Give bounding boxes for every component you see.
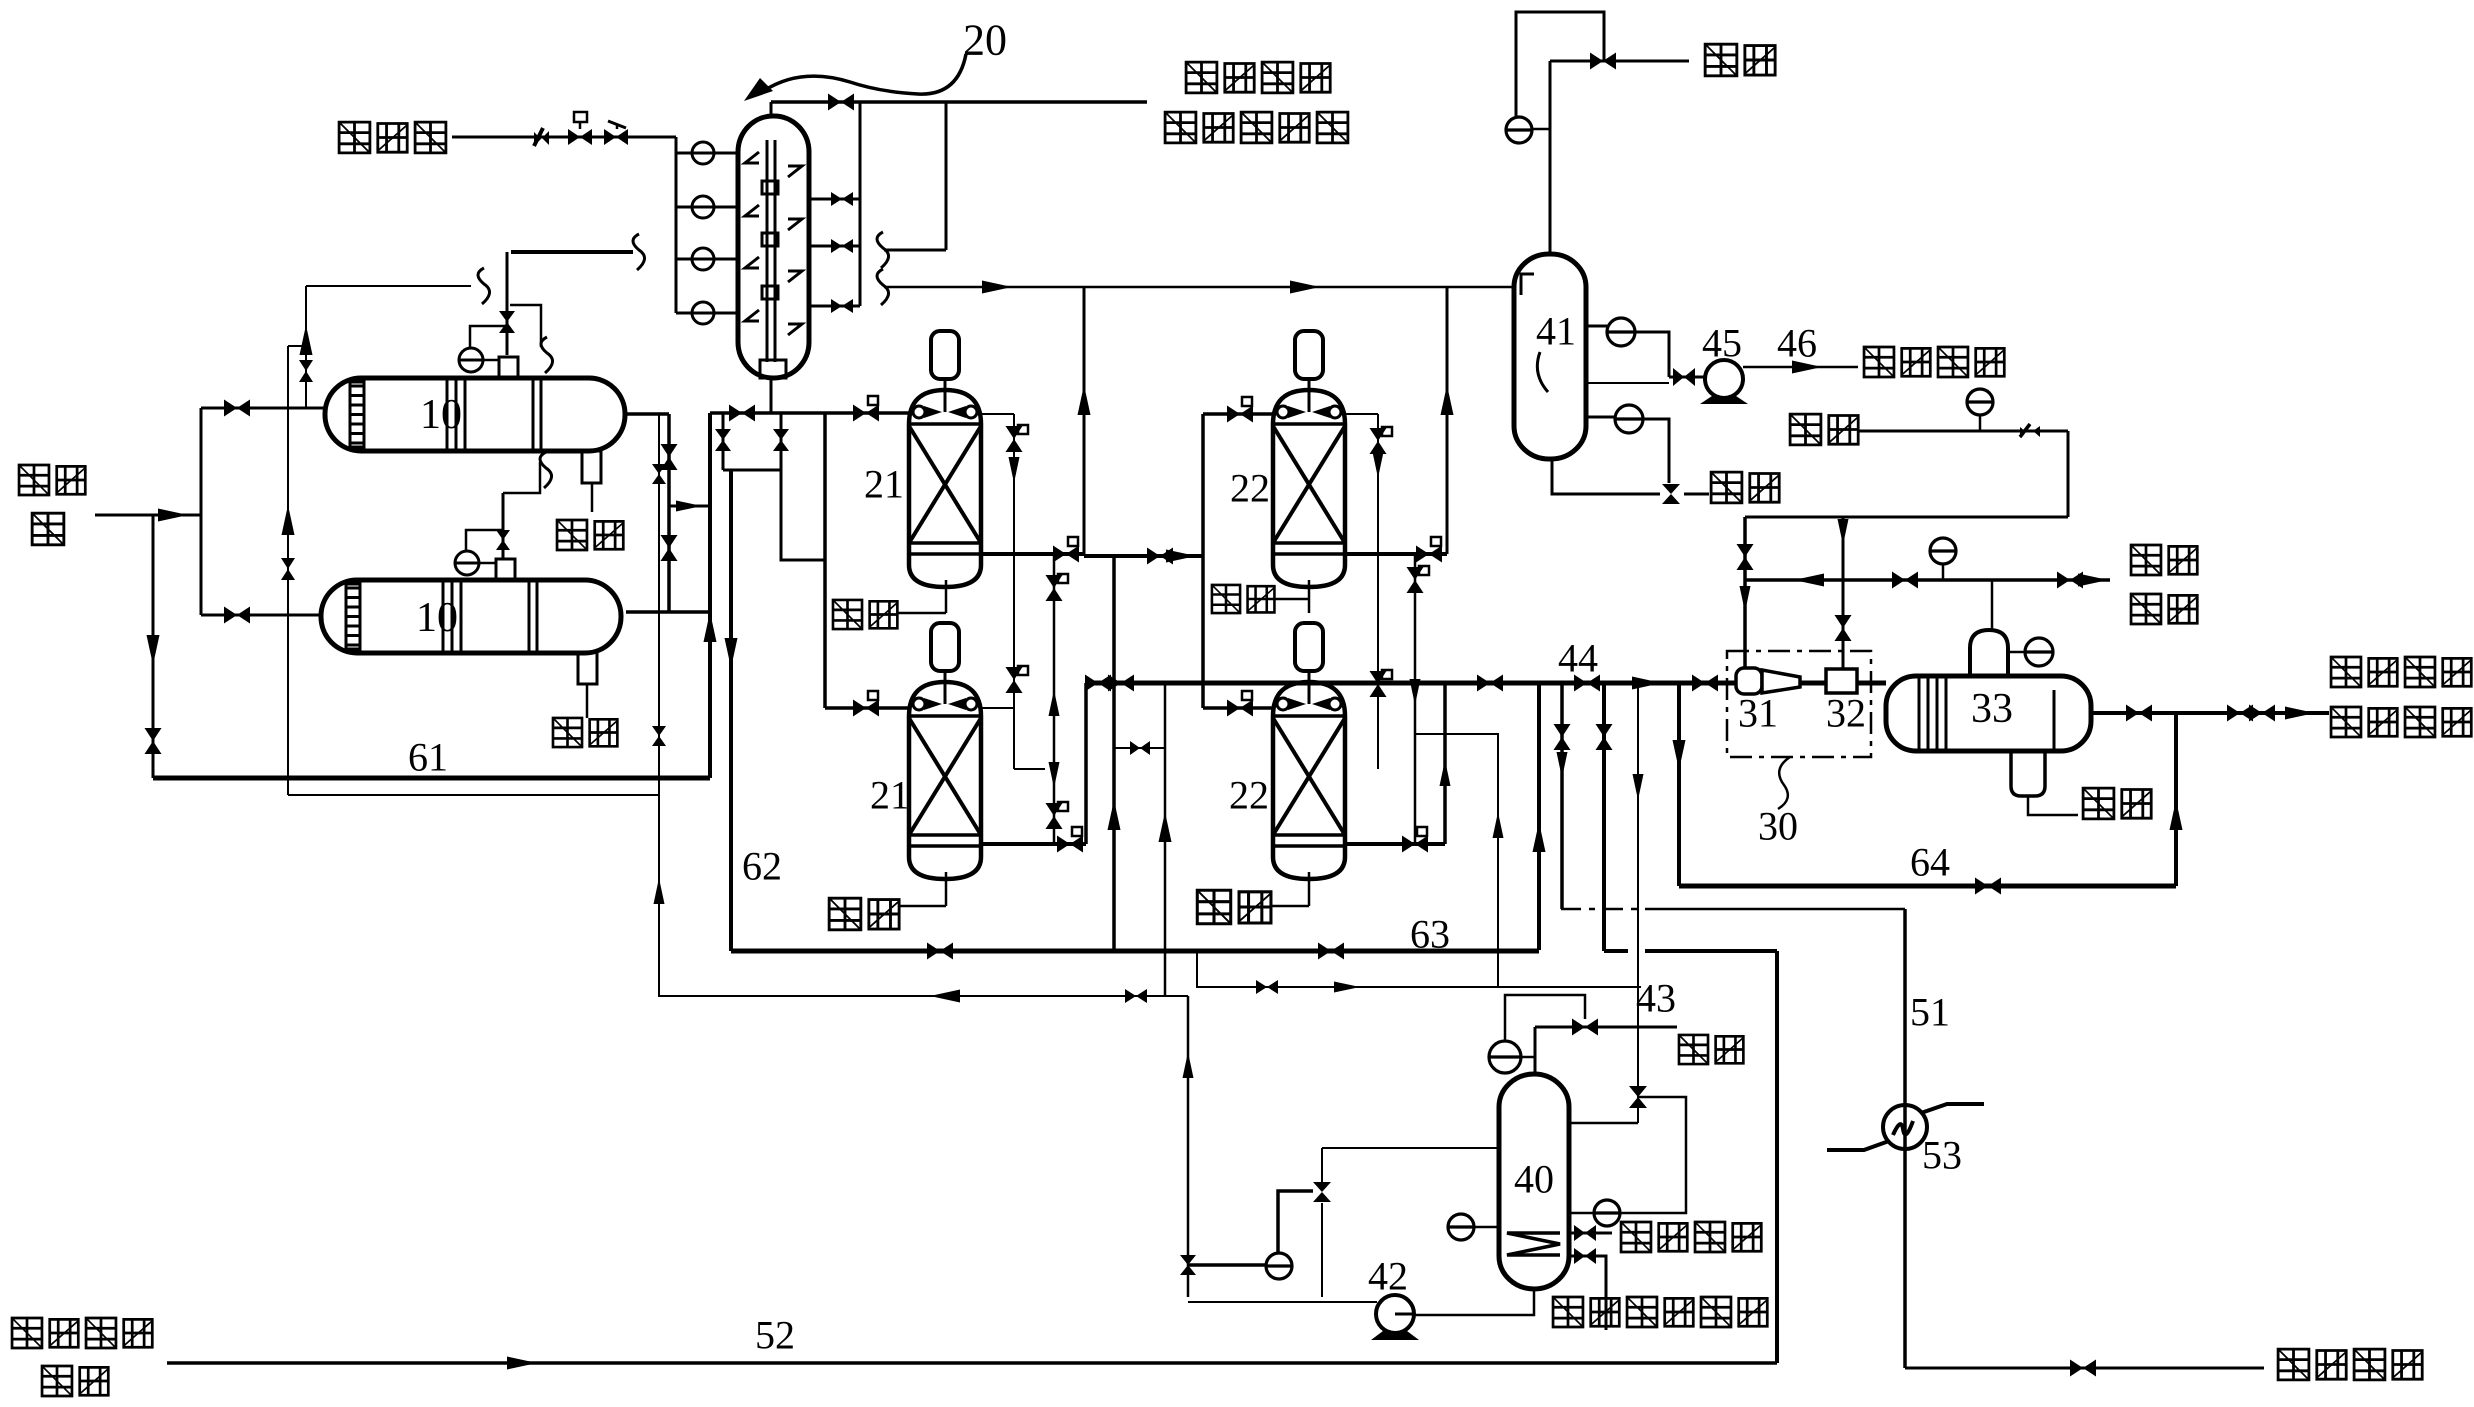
41 upper outlet bbox=[1586, 325, 1607, 328]
riser 22 lower bbox=[1443, 683, 1447, 844]
svg-text:31: 31 bbox=[1738, 691, 1778, 736]
heavy oil label upper bbox=[557, 520, 587, 550]
drop x1604 bbox=[1602, 683, 1606, 951]
nozzle circle at 259 bbox=[676, 258, 692, 261]
orifice 32 bbox=[1826, 669, 1857, 693]
control valve on cracked gas line bbox=[568, 129, 580, 145]
column 20 shell bbox=[738, 116, 809, 378]
column 20 dip tube bbox=[766, 140, 769, 362]
reactor 21 lower drain bbox=[945, 872, 948, 906]
connector y506 bbox=[669, 505, 710, 508]
riser 21 upper bbox=[1083, 287, 1086, 554]
column right branch 306 bbox=[809, 305, 860, 308]
line 64 bbox=[1679, 884, 2176, 889]
globe valve standpipe bbox=[499, 311, 515, 322]
cracked gas line bbox=[452, 136, 676, 139]
vessel 10 hatch band bbox=[346, 584, 360, 649]
reactor 21 upper bbox=[909, 390, 981, 587]
long line to vessel 41 bbox=[884, 286, 1514, 289]
PI circle 41 top bbox=[1506, 117, 1532, 143]
line 52 bbox=[167, 1361, 1777, 1365]
vessel 33 shell bbox=[1886, 676, 2091, 751]
upper 10 standpipe bbox=[506, 252, 509, 355]
svg-text:43: 43 bbox=[1636, 976, 1676, 1021]
thin line y987 bbox=[1197, 951, 1641, 987]
nozzle circle at 207 bbox=[676, 206, 692, 209]
reactor 21 upper inlet bbox=[825, 411, 909, 415]
label 20 leader bbox=[765, 54, 966, 94]
flare line bbox=[1550, 60, 1689, 63]
reactor 22 upper outlet bbox=[1345, 552, 1447, 556]
styrene water label bbox=[12, 1318, 42, 1348]
vessel 10 baffle lines bbox=[442, 580, 445, 653]
drop x1745 to ejector bbox=[1743, 517, 1747, 668]
svg-text:20: 20 bbox=[963, 16, 1007, 65]
vessel 10 lower top nozzle bbox=[496, 559, 515, 580]
nozzle circle at 313 bbox=[676, 312, 692, 315]
flare label 2 bbox=[1679, 1035, 1708, 1064]
svg-text:61: 61 bbox=[408, 735, 448, 780]
line y909 dashed+solid bbox=[1561, 908, 1645, 911]
heavy oil label 21u bbox=[833, 600, 862, 629]
svg-text:63: 63 bbox=[1410, 912, 1450, 957]
quench tower label 1 bbox=[1864, 347, 1894, 377]
thin line y795 bbox=[288, 794, 658, 796]
aux vertical x1054 bbox=[1053, 554, 1056, 844]
column 20 right header bbox=[859, 102, 862, 306]
bypass line B bbox=[305, 286, 307, 409]
PI circle toluene bbox=[1967, 389, 1993, 415]
line 51 bbox=[1903, 909, 1907, 1368]
vessel 33 tubes bbox=[1918, 677, 1921, 750]
riser 21 lower bbox=[1084, 683, 1088, 844]
reactor 22 upper bbox=[1273, 390, 1345, 587]
check valve toluene bbox=[2020, 424, 2030, 437]
svg-text:33: 33 bbox=[1971, 686, 2013, 732]
thin line y996 bbox=[658, 995, 1188, 997]
globe valve lower standpipe bbox=[496, 530, 510, 540]
thin x1378 bbox=[1377, 414, 1379, 769]
PI circle 42 bbox=[1266, 1253, 1292, 1279]
PI circle 40 bbox=[1489, 1041, 1521, 1073]
lower 10 outlet bbox=[626, 610, 710, 614]
process water label 工艺水 bbox=[19, 465, 49, 495]
column 20 bottom notch bbox=[760, 360, 786, 378]
column 20 internals level 1 bbox=[745, 152, 759, 163]
svg-text:22: 22 bbox=[1229, 773, 1269, 818]
flare line 40 bbox=[1535, 1026, 1677, 1029]
pump 42 lines bbox=[1188, 1301, 1377, 1303]
dashed box 30 bbox=[1727, 651, 1871, 757]
riser 64 to outlet bbox=[2174, 713, 2178, 886]
cracked gas header bbox=[675, 137, 678, 313]
pump 42 bbox=[1376, 1295, 1414, 1333]
svg-text:40: 40 bbox=[1514, 1157, 1554, 1202]
outlet bold vertical bbox=[667, 414, 671, 612]
drop x1779 bbox=[1775, 951, 1779, 1363]
valve to heavy oil bbox=[1662, 484, 1680, 494]
coil in 40 bbox=[1507, 1233, 1560, 1255]
bypass line A bbox=[287, 346, 289, 795]
thin loop x1498 bbox=[1415, 734, 1498, 987]
40 bottom to pump bbox=[1414, 1289, 1534, 1315]
line 43 vertical bbox=[1637, 683, 1639, 1123]
cluster verticals bbox=[722, 413, 725, 470]
line 62-63 bbox=[731, 949, 1539, 954]
lp steam label bbox=[1621, 1222, 1651, 1252]
PI circle header bbox=[1930, 538, 1956, 564]
PI circle 33 bbox=[2025, 638, 2053, 666]
vessel 41 internals bbox=[1521, 274, 1534, 295]
line 61 bbox=[153, 776, 710, 781]
valve cluster 42 bbox=[1278, 1191, 1313, 1253]
long line to 41 break bbox=[877, 269, 889, 305]
vessel 41 shell bbox=[1514, 254, 1586, 459]
svg-text:32: 32 bbox=[1826, 691, 1866, 736]
bold stub w break bbox=[511, 250, 633, 254]
lp condensate label bbox=[1553, 1297, 1583, 1327]
process water inlet bbox=[95, 514, 201, 517]
heavy oil label 22u bbox=[1212, 585, 1240, 613]
cracked gas label 裂解气 bbox=[339, 122, 370, 153]
column right branch 246 bbox=[809, 245, 860, 248]
thin stub w break bbox=[306, 285, 471, 287]
flare label 火炬 bbox=[1705, 44, 1737, 76]
heavy oil label 22l bbox=[1197, 890, 1230, 923]
lower 10 standpipe bbox=[502, 493, 505, 559]
reactor 21 upper outlet bbox=[981, 552, 1084, 556]
drop line x153 bbox=[152, 515, 155, 778]
svg-text:52: 52 bbox=[755, 1313, 795, 1358]
bold drop x731 bbox=[729, 470, 733, 951]
quench tower label 2 bbox=[2131, 545, 2161, 575]
main line 44 bbox=[1086, 681, 1886, 686]
riser 22 upper bbox=[1446, 287, 1449, 554]
toluene line bbox=[1858, 430, 2068, 433]
43 control valve bbox=[1629, 1086, 1647, 1097]
lower 10 drain nozzle bbox=[578, 652, 597, 684]
overhead line bbox=[771, 100, 1147, 104]
reactor 22 upper inlet bbox=[1203, 412, 1274, 416]
33 heavy oil bbox=[2028, 796, 2078, 815]
branch stub w break bbox=[510, 305, 541, 347]
column 20 internals level 2 bbox=[745, 205, 759, 216]
reactor 21 upper freeboard stub bbox=[981, 413, 1014, 415]
valves on line 44 bbox=[1085, 675, 1098, 692]
svg-text:30: 30 bbox=[1758, 804, 1798, 849]
40 right loop bbox=[1621, 1097, 1686, 1213]
column 20 internals level 3 bbox=[745, 257, 759, 268]
vessel 41 riser bbox=[1549, 61, 1552, 254]
svg-text:22: 22 bbox=[1230, 466, 1270, 511]
svg-text:21: 21 bbox=[864, 462, 904, 507]
feed line to 22 bbox=[1084, 554, 1203, 558]
drop x1679 (64) bbox=[1677, 683, 1681, 886]
psv loop 41 bbox=[1516, 12, 1604, 117]
vertical x1203 bbox=[1201, 414, 1205, 708]
reactor 21 lower inlet bbox=[825, 706, 909, 710]
x1188 line bbox=[1187, 996, 1190, 1297]
41 mid nozzle bbox=[1586, 382, 1669, 384]
lower 10 inlet bbox=[201, 614, 321, 617]
svg-text:45: 45 bbox=[1702, 321, 1742, 366]
vessel 33 weir bbox=[2053, 690, 2056, 750]
thin vertical x659 bbox=[658, 414, 660, 996]
check valve on cracked gas line bbox=[534, 128, 543, 146]
reactor 21 lower freeboard stub bbox=[981, 707, 1014, 709]
heavy oil label 41 bbox=[1684, 493, 1709, 496]
accident pool label bbox=[2278, 1349, 2309, 1380]
vessel 10 lower shell bbox=[321, 580, 621, 653]
svg-text:53: 53 bbox=[1922, 1133, 1962, 1178]
43 into vessel 40 bbox=[1569, 1122, 1638, 1125]
svg-text:44: 44 bbox=[1558, 636, 1598, 681]
line y413 bbox=[710, 411, 825, 415]
header to dome bbox=[1991, 580, 1994, 630]
upper 10 outlet bbox=[625, 412, 669, 416]
column 20 bottom outlet bbox=[770, 378, 773, 413]
dilution steam label bbox=[2331, 657, 2361, 687]
label 30 leader bbox=[1778, 757, 1790, 809]
PSV loop upper 10 bbox=[470, 326, 507, 348]
reactor 22 lower outlet bbox=[1345, 842, 1445, 846]
vessel 33 dome bbox=[1970, 630, 2008, 676]
toluene label 甲苯 bbox=[1790, 414, 1821, 445]
toluene drop bbox=[2067, 431, 2070, 517]
gate valve on cracked gas line bbox=[604, 129, 616, 145]
41 bottom outlet bbox=[1552, 459, 1660, 494]
connector y748 bbox=[1114, 747, 1165, 749]
drop x1539 bbox=[1537, 683, 1541, 950]
column 20 internals level 4 bbox=[745, 310, 759, 321]
reactor 22 lower inlet bbox=[1203, 706, 1274, 710]
to quench tower label bbox=[1165, 112, 1196, 143]
vessel 33 sump bbox=[2011, 751, 2045, 796]
svg-text:10: 10 bbox=[420, 392, 462, 438]
column 20 overhead nozzle bbox=[770, 102, 773, 118]
lp steam line bbox=[1569, 1232, 1612, 1235]
reactor 22 upper freeboard stub bbox=[1345, 413, 1378, 415]
svg-text:10: 10 bbox=[416, 595, 458, 641]
valve on overhead line bbox=[828, 94, 841, 111]
overhead drop line bbox=[945, 102, 948, 250]
aux vertical x1415 bbox=[1414, 554, 1417, 844]
accident pool line bbox=[1905, 1367, 2264, 1370]
svg-text:51: 51 bbox=[1910, 990, 1950, 1035]
drop x1843 to orifice bbox=[1842, 517, 1845, 669]
svg-text:41: 41 bbox=[1536, 309, 1576, 354]
psv loop 40 bbox=[1505, 995, 1585, 1041]
PSV loop lower 10 bbox=[466, 530, 503, 551]
line 63 right segment bbox=[1604, 949, 1628, 953]
stub to drop bbox=[884, 249, 946, 252]
reactor 22 lower drain bbox=[1308, 872, 1311, 906]
vessel 10 baffle lines bbox=[446, 378, 449, 451]
vessel 40 shell bbox=[1499, 1074, 1569, 1289]
heavy oil label lower bbox=[553, 718, 582, 747]
drop x1562 bbox=[1560, 683, 1564, 909]
reactor 21 upper drain bbox=[945, 580, 948, 613]
svg-text:64: 64 bbox=[1910, 840, 1950, 885]
valve above pump bbox=[1668, 368, 1671, 377]
thin x1014 bbox=[1013, 414, 1015, 769]
column right branch 199 bbox=[809, 198, 860, 201]
svg-text:42: 42 bbox=[1368, 1254, 1408, 1299]
hx 53 bbox=[1883, 1105, 1927, 1149]
heavy oil label 21l bbox=[829, 898, 861, 930]
ejector 31 bbox=[1736, 668, 1762, 694]
nozzle circle at 153 bbox=[676, 152, 692, 155]
vessel 40 riser bbox=[1534, 1027, 1537, 1074]
svg-text:46: 46 bbox=[1777, 321, 1817, 366]
upper 10 inlet bbox=[201, 407, 325, 410]
reactor 22 lower bbox=[1273, 682, 1345, 879]
vertical x1114 bbox=[1112, 556, 1116, 951]
vessel 10 hatch band bbox=[350, 382, 364, 447]
inlet header vertical bbox=[200, 408, 203, 615]
PI circle 40 left bbox=[1448, 1214, 1474, 1240]
lp condensate line bbox=[1569, 1256, 1606, 1330]
reactor 22 upper drain bbox=[1308, 580, 1311, 613]
vertical x825 bbox=[823, 413, 827, 708]
PI circle upper 10 bbox=[459, 348, 483, 372]
x1014 foot bbox=[1014, 768, 1045, 770]
cluster to reactor feed bbox=[781, 470, 825, 560]
light oil + water label bbox=[1186, 62, 1217, 93]
line y517 bbox=[1745, 516, 2068, 519]
PI circle lower 10 bbox=[455, 551, 479, 575]
vessel 10 upper shell bbox=[325, 378, 625, 451]
pump 45 bbox=[1705, 360, 1743, 398]
upper 10 drain nozzle bbox=[582, 451, 601, 483]
reactor 21 lower bbox=[909, 682, 981, 879]
reactor 21 lower outlet bbox=[981, 842, 1086, 846]
svg-text:21: 21 bbox=[870, 773, 910, 818]
vertical x1165 bbox=[1164, 683, 1167, 996]
41 lower outlet bbox=[1586, 416, 1614, 419]
bold riser x710 bbox=[708, 413, 712, 778]
dilution steam line bbox=[2091, 711, 2329, 715]
svg-text:62: 62 bbox=[742, 844, 782, 889]
vessel 10 upper top nozzle bbox=[499, 357, 518, 378]
quench header y580 bbox=[1745, 578, 2110, 582]
